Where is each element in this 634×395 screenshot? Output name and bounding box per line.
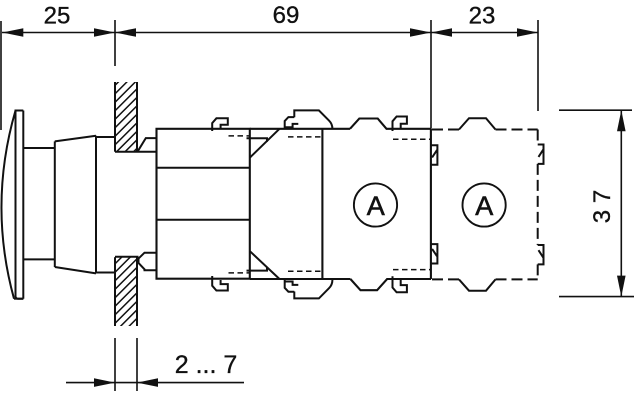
second contact block circle A — [463, 183, 506, 226]
panel hatching upper — [110, 50, 142, 176]
adapter top diagonal — [250, 129, 280, 158]
bezel collar top edge — [96, 136, 115, 138]
button body top edge — [55, 136, 96, 142]
dimension extension line at 69/23 boundary — [430, 20, 432, 129]
contact block side clip top — [431, 145, 438, 164]
contact block hidden edge bottom-left — [288, 270, 322, 272]
svg-text:23: 23 — [469, 3, 496, 30]
panel hole top edge — [115, 151, 157, 153]
svg-text:A: A — [475, 191, 493, 221]
dimension 37 top extension line — [559, 109, 632, 111]
contact block bottom-left latch — [285, 279, 299, 291]
svg-text:A: A — [367, 191, 385, 221]
dimension line 37 vertical — [620, 110, 622, 296]
dimension line 23 — [431, 32, 538, 34]
mounting ring bottom with wedge groove — [139, 253, 157, 271]
contact block bottom-right latch — [393, 276, 407, 292]
panel front face lower — [114, 257, 116, 326]
central block hidden edge bottom — [229, 272, 250, 274]
panel back face upper — [136, 82, 138, 152]
bezel collar bottom edge — [96, 272, 115, 274]
central block top latch — [212, 118, 228, 131]
contact block housing top-left — [294, 110, 332, 128]
dimension line 69 — [115, 32, 431, 34]
contact block housing bottom-left — [294, 280, 332, 298]
second contact block dashed top edge — [432, 129, 459, 131]
second contact block top bump — [459, 118, 496, 129]
dimension extension line at panel front — [114, 20, 116, 66]
second contact block side clip bottom — [538, 245, 544, 264]
second contact block dashed right edge — [537, 130, 539, 280]
dimension 37 bottom extension line — [559, 296, 634, 298]
contact block top-right latch — [393, 117, 407, 132]
button body bottom edge — [55, 267, 96, 273]
dimension 23 extension line right — [537, 20, 539, 111]
dimension 25 extension line left — [0, 21, 2, 130]
panel front face upper — [114, 82, 116, 152]
button body left edge — [54, 141, 56, 267]
contact block top edge with bump — [350, 119, 431, 129]
contact block hidden edge top-left — [288, 136, 322, 138]
central block hidden edge top — [229, 135, 250, 137]
button neck top edge — [23, 147, 55, 149]
contact block left face — [321, 129, 323, 279]
second contact block dashed bottom edge — [432, 278, 459, 280]
adapter top edge — [250, 128, 350, 130]
dimension line 2...7 — [66, 382, 244, 384]
svg-text:2 ... 7: 2 ... 7 — [175, 351, 238, 379]
mounting ring top — [138, 138, 157, 152]
contact block top-left latch — [285, 117, 299, 129]
contact block circle A — [354, 183, 397, 226]
central block body — [157, 129, 250, 279]
second contact block dashed top edge right — [496, 129, 538, 131]
second contact block dashed bottom edge right — [496, 278, 538, 280]
contact block hidden edge bottom-right — [393, 269, 430, 271]
panel hole bottom edge — [115, 256, 139, 258]
central block bottom latch — [212, 276, 228, 291]
adapter bottom tab — [247, 267, 268, 271]
adapter bottom diagonal — [250, 251, 280, 279]
contact block bottom edge with bump — [350, 279, 431, 290]
central block divider 1 — [157, 167, 250, 169]
button body right edge — [95, 136, 97, 274]
svg-text:25: 25 — [44, 3, 71, 30]
second contact block bottom bump — [459, 279, 496, 290]
dimension 2...7 extension lines — [114, 338, 116, 391]
contact block hidden edge top-right — [393, 138, 430, 140]
central block divider 2 — [157, 219, 250, 221]
second contact block side clip top — [538, 145, 544, 164]
dimension line 25 — [2, 32, 115, 34]
button neck bottom edge — [23, 258, 55, 260]
contact block side clip bottom — [431, 244, 438, 263]
adapter bottom edge — [250, 278, 351, 280]
panel back face lower — [136, 257, 138, 326]
panel hatching lower — [110, 228, 142, 345]
svg-text:69: 69 — [273, 2, 300, 29]
contact block right face — [430, 129, 432, 279]
button cap profile arc — [1, 111, 15, 299]
button cap disc — [16, 111, 24, 299]
adapter top tab — [247, 138, 268, 142]
